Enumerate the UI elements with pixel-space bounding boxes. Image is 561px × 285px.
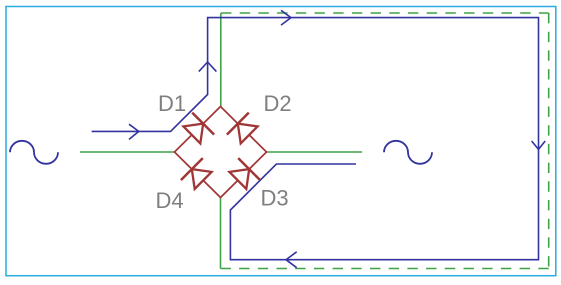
wire: green dashed load loop right edge xyxy=(548,13,550,269)
arrow down on right wire xyxy=(532,141,546,149)
diode D2 xyxy=(227,113,258,144)
wire: green DC- bottom lead xyxy=(220,198,222,269)
svg-text:D4: D4 xyxy=(156,188,184,213)
wire: green DC+ top lead xyxy=(220,13,222,107)
diode D3 xyxy=(229,158,260,189)
diode D1 xyxy=(183,113,214,144)
wire: green AC right lead xyxy=(267,151,363,153)
AC source right (sine symbol) xyxy=(384,141,432,164)
wire: green dashed load loop bottom edge xyxy=(221,268,549,270)
arrow right on left input wire xyxy=(129,124,139,139)
diode D4 xyxy=(181,158,212,189)
wire: blue current path xyxy=(92,18,539,260)
bridge diamond wires xyxy=(175,107,267,198)
wire: green AC left lead xyxy=(80,151,175,153)
arrow up on riser wire xyxy=(199,62,217,72)
AC source left (sine symbol) xyxy=(10,141,58,164)
svg-text:D2: D2 xyxy=(264,91,292,116)
wire: green dashed load loop top edge xyxy=(221,12,549,14)
svg-text:D3: D3 xyxy=(261,186,289,211)
svg-text:D1: D1 xyxy=(158,91,186,116)
arrow right on top wire xyxy=(281,10,291,25)
arrow left on bottom wire xyxy=(286,252,297,268)
